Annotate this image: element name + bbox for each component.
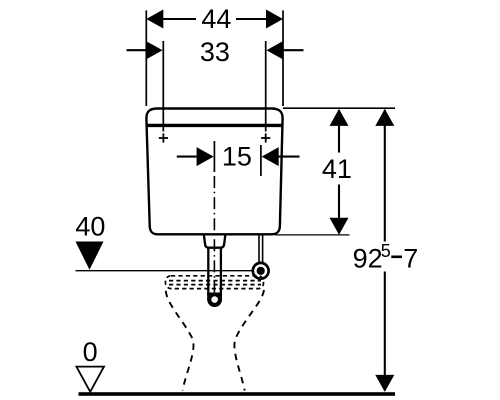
svg-text:5: 5 [381, 241, 391, 261]
level marker 0 open triangle [76, 367, 104, 392]
supply connection circle [253, 263, 269, 279]
svg-text:0: 0 [83, 337, 98, 367]
dim 41 arrow up [330, 109, 349, 126]
svg-text:15: 15 [222, 142, 252, 172]
dim 44 extension line left [145, 10, 147, 106]
svg-text:41: 41 [322, 154, 352, 184]
dim 41 line lower [338, 185, 340, 234]
dim 92 arrow down [375, 375, 394, 392]
centerline dash-dot [213, 176, 215, 292]
dim 15 extension line left [213, 141, 215, 172]
flush pipe end cap [207, 292, 222, 307]
level marker 40 filled triangle [76, 242, 104, 270]
top reference line [283, 107, 395, 109]
flush valve connector [204, 235, 225, 248]
dim 33 extension line right [265, 41, 267, 132]
dim 15 extension line right [260, 145, 262, 176]
WC pan pedestal left dashed [166, 291, 194, 391]
WC pan pedestal right dashed [234, 290, 264, 391]
fixing hole cross left [159, 133, 168, 142]
flush pipe walls [207, 248, 209, 296]
dim 41 arrow down [330, 218, 349, 235]
dim 44 arrow left [146, 10, 163, 29]
supply pipe double line [258, 236, 260, 264]
dim 92 line lower [384, 272, 386, 391]
dim 15 arrow right [262, 147, 279, 166]
dim 15 tail left [177, 156, 197, 158]
dim 33 arrow right [267, 41, 284, 60]
cistern body [146, 109, 282, 235]
fixing hole cross right [261, 133, 270, 142]
dim 92 arrow up [375, 109, 394, 126]
cistern bottom reference line [275, 234, 350, 236]
dim 44 extension line right [282, 10, 284, 106]
dim 44 line [160, 18, 196, 20]
dim 44 arrow right [266, 10, 283, 29]
svg-text:33: 33 [200, 37, 230, 67]
floor line [79, 392, 396, 396]
dim 15 arrow left [197, 147, 214, 166]
WC pan rim dashed [166, 276, 264, 289]
cistern lid band [147, 124, 283, 127]
dim 33 tail right [283, 49, 304, 51]
svg-text:40: 40 [75, 211, 105, 241]
dim 41 line upper [338, 110, 340, 153]
svg-text:44: 44 [201, 4, 231, 34]
dim 33 tail left [127, 49, 147, 51]
dim 33 extension line left [162, 41, 164, 132]
dim 15 tail right [278, 156, 300, 158]
svg-text:7: 7 [403, 244, 418, 274]
dim 33 arrow left [146, 41, 163, 60]
dim 92 line upper [384, 110, 386, 242]
level line 40 [76, 270, 253, 272]
svg-text:92: 92 [353, 244, 383, 274]
